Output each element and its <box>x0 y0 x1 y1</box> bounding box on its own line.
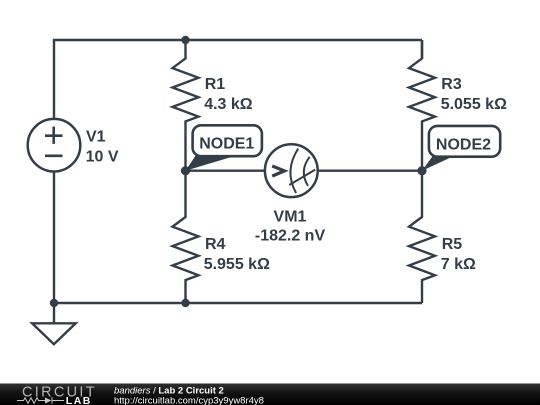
node NODE1 dot <box>181 166 190 175</box>
junction dot top rail <box>181 36 189 44</box>
svg-text:4.3 kΩ: 4.3 kΩ <box>204 96 253 113</box>
node NODE1 callout bubble <box>193 125 262 156</box>
wire NODE1 to voltmeter <box>186 169 265 171</box>
junction dot ground corner <box>50 299 58 307</box>
wire voltmeter to NODE2 <box>317 169 422 171</box>
node NODE1 callout tail <box>186 155 239 171</box>
svg-text:R1: R1 <box>205 76 226 93</box>
resistor R5 <box>409 171 435 303</box>
wire left branch lower (V1 to bottom rail) <box>53 172 55 304</box>
wire top rail <box>54 40 422 41</box>
node NODE2 dot <box>417 166 426 175</box>
wire right branch upper corner <box>421 40 423 59</box>
wire left branch upper (to V1) <box>53 40 55 119</box>
svg-text:NODE2: NODE2 <box>436 136 491 153</box>
ground <box>32 303 76 344</box>
resistor R1 <box>173 40 199 171</box>
svg-text:LAB: LAB <box>66 395 92 405</box>
svg-text:10 V: 10 V <box>86 149 119 166</box>
junction dot bottom rail <box>181 299 189 307</box>
resistor R4 <box>173 171 199 303</box>
svg-text:R3: R3 <box>441 76 462 93</box>
svg-text:7 kΩ: 7 kΩ <box>441 256 476 273</box>
node NODE2 callout bubble <box>429 126 500 157</box>
svg-text:http://circuitlab.com/cyp3y9yw: http://circuitlab.com/cyp3y9yw8r4y8 <box>114 395 264 405</box>
svg-text:R4: R4 <box>205 236 226 253</box>
wire bottom rail <box>54 302 422 304</box>
svg-text:V1: V1 <box>86 129 106 146</box>
svg-text:5.055 kΩ: 5.055 kΩ <box>441 96 507 113</box>
footer logo circuit glyph <box>17 397 64 403</box>
footer bar <box>0 384 540 405</box>
svg-text:5.955 kΩ: 5.955 kΩ <box>204 256 270 273</box>
resistor R3 <box>409 40 435 171</box>
svg-text:-182.2 nV: -182.2 nV <box>255 228 326 245</box>
voltage source V1 <box>28 119 81 172</box>
voltmeter VM1 <box>265 144 318 197</box>
svg-text:R5: R5 <box>442 236 463 253</box>
svg-text:NODE1: NODE1 <box>199 136 254 153</box>
node NODE2 callout tail <box>422 156 455 171</box>
svg-text:VM1: VM1 <box>274 208 307 225</box>
